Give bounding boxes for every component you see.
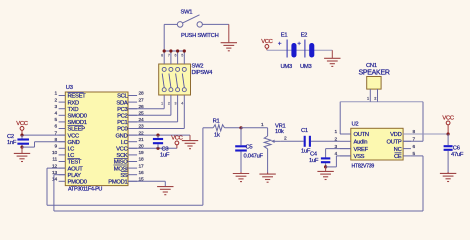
svg-text:CE: CE — [394, 154, 402, 160]
svg-text:PC2: PC2 — [117, 114, 127, 120]
svg-text:PMOD0: PMOD0 — [68, 180, 87, 186]
svg-text:SW2: SW2 — [192, 64, 204, 70]
svg-text:VDD: VDD — [390, 132, 401, 138]
svg-text:C2: C2 — [7, 134, 14, 140]
svg-text:+: + — [297, 41, 301, 48]
svg-text:18: 18 — [139, 157, 145, 163]
svg-text:OUTN: OUTN — [354, 132, 369, 138]
svg-text:3: 3 — [175, 102, 177, 106]
svg-text:C4: C4 — [310, 152, 318, 158]
svg-text:C1: C1 — [301, 128, 308, 134]
svg-text:2: 2 — [168, 102, 170, 106]
svg-text:PC3: PC3 — [117, 107, 127, 113]
svg-text:SW1: SW1 — [181, 9, 193, 15]
svg-text:1uF: 1uF — [309, 158, 319, 164]
svg-text:OUTP: OUTP — [387, 140, 402, 146]
svg-text:PC1: PC1 — [117, 120, 127, 126]
svg-text:1nF: 1nF — [7, 140, 17, 146]
svg-text:47uF: 47uF — [451, 152, 464, 158]
svg-text:5: 5 — [181, 54, 183, 58]
svg-text:10k: 10k — [275, 129, 284, 135]
svg-text:PMOD1: PMOD1 — [108, 180, 127, 186]
svg-text:DIPSW4: DIPSW4 — [192, 70, 214, 76]
svg-text:SPEAKER: SPEAKER — [359, 70, 390, 77]
svg-text:4: 4 — [181, 102, 183, 106]
svg-text:7: 7 — [168, 54, 170, 58]
svg-text:TXD: TXD — [68, 107, 79, 113]
svg-text:I.C: I.C — [121, 140, 128, 146]
svg-text:27: 27 — [139, 97, 145, 103]
svg-text:VREF: VREF — [354, 147, 369, 153]
svg-text:1: 1 — [161, 102, 163, 106]
svg-text:E1: E1 — [281, 32, 288, 38]
svg-text:SS: SS — [120, 173, 128, 179]
svg-text:R1: R1 — [213, 119, 220, 125]
svg-text:ATP3011F4-PU: ATP3011F4-PU — [68, 186, 102, 192]
svg-text:PLAY: PLAY — [68, 173, 82, 179]
svg-text:6: 6 — [175, 54, 177, 58]
svg-text:17: 17 — [139, 163, 145, 169]
svg-text:1uF: 1uF — [160, 153, 170, 159]
svg-text:0.047uF: 0.047uF — [244, 154, 264, 160]
svg-text:SDA: SDA — [116, 100, 127, 106]
svg-text:PC0: PC0 — [117, 127, 127, 133]
svg-text:2: 2 — [374, 97, 376, 101]
svg-text:1k: 1k — [214, 132, 220, 138]
svg-text:UM3: UM3 — [281, 64, 292, 70]
svg-text:10: 10 — [52, 150, 58, 156]
svg-text:NC: NC — [394, 147, 402, 153]
svg-text:GND: GND — [115, 133, 127, 139]
svg-text:CN1: CN1 — [366, 63, 377, 69]
svg-text:21: 21 — [139, 137, 145, 143]
svg-text:SCL: SCL — [117, 94, 128, 100]
svg-text:C6: C6 — [453, 146, 460, 152]
svg-text:VCC: VCC — [116, 147, 127, 153]
svg-text:AudIn: AudIn — [354, 140, 368, 146]
svg-text:28: 28 — [139, 91, 145, 97]
svg-text:HT82V739: HT82V739 — [352, 164, 375, 170]
svg-text:SLEEP: SLEEP — [68, 127, 86, 133]
svg-text:+: + — [278, 41, 282, 48]
svg-text:8: 8 — [161, 54, 163, 58]
svg-text:1: 1 — [367, 97, 369, 101]
svg-text:GND: GND — [68, 140, 80, 146]
svg-text:16: 16 — [139, 170, 145, 176]
svg-text:I.C: I.C — [68, 147, 75, 153]
svg-text:E2: E2 — [301, 32, 308, 38]
svg-text:RESET: RESET — [68, 94, 87, 100]
svg-text:U3: U3 — [66, 85, 73, 91]
svg-text:14: 14 — [52, 177, 58, 183]
svg-text:SMOD0: SMOD0 — [68, 114, 87, 120]
svg-text:U2: U2 — [352, 122, 359, 128]
svg-text:11: 11 — [52, 157, 57, 163]
svg-text:TEST: TEST — [68, 160, 82, 166]
svg-text:C5: C5 — [246, 145, 253, 151]
svg-text:RXD: RXD — [68, 100, 79, 106]
svg-text:UM3: UM3 — [300, 64, 311, 70]
svg-text:VCC: VCC — [68, 133, 79, 139]
svg-text:VSS: VSS — [354, 154, 365, 160]
svg-text:19: 19 — [139, 150, 145, 156]
svg-text:PUSH SWITCH: PUSH SWITCH — [181, 33, 219, 39]
svg-text:AOUT: AOUT — [68, 166, 84, 172]
